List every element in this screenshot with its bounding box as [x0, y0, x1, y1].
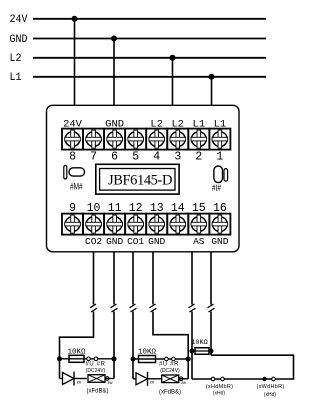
- svg-text:10KΩ: 10KΩ: [191, 339, 207, 347]
- svg-text:(xWdHbR): (xWdHbR): [256, 384, 284, 390]
- svg-text:#U #R: #U #R: [159, 362, 179, 368]
- svg-text:GND: GND: [106, 236, 123, 247]
- svg-text:6: 6: [111, 151, 118, 164]
- svg-text:2: 2: [195, 151, 202, 164]
- svg-text:#I#: #I#: [212, 183, 222, 193]
- svg-text:(xFdB&): (xFdB&): [159, 389, 181, 395]
- svg-text:CO2: CO2: [85, 236, 102, 247]
- svg-text:4: 4: [153, 151, 160, 164]
- svg-text:#U #R: #U #R: [86, 361, 106, 367]
- svg-text:GND: GND: [148, 236, 165, 247]
- svg-text:(xHd): (xHd): [264, 392, 277, 398]
- svg-text:#M#: #M#: [70, 182, 83, 192]
- svg-text:JBF6145-D: JBF6145-D: [108, 172, 172, 188]
- svg-text:L2: L2: [10, 53, 22, 66]
- svg-text:7: 7: [90, 151, 97, 164]
- svg-text:GND: GND: [105, 118, 124, 130]
- svg-text:10KΩ: 10KΩ: [138, 349, 157, 357]
- svg-text:24V: 24V: [63, 118, 83, 130]
- svg-text:zn: zn: [150, 380, 155, 385]
- svg-text:L2: L2: [171, 118, 184, 130]
- svg-text:24V: 24V: [10, 14, 29, 27]
- svg-text:(xFdB&): (xFdB&): [86, 389, 108, 395]
- svg-text:3: 3: [174, 151, 181, 164]
- svg-text:AS: AS: [193, 236, 205, 247]
- svg-text:CO1: CO1: [127, 236, 144, 247]
- svg-text:(xHdMbR): (xHdMbR): [206, 384, 233, 390]
- svg-text:zn: zn: [77, 380, 82, 385]
- svg-text:GND: GND: [211, 236, 228, 247]
- svg-text:L1: L1: [193, 118, 206, 130]
- svg-text:L1: L1: [10, 72, 22, 85]
- svg-text:L1: L1: [214, 118, 227, 130]
- svg-text:GND: GND: [10, 33, 28, 46]
- svg-text:8: 8: [69, 151, 76, 164]
- svg-text:5: 5: [132, 151, 139, 164]
- svg-text:(DC24V): (DC24V): [86, 368, 106, 374]
- svg-text:10KΩ: 10KΩ: [67, 349, 86, 357]
- svg-text:(DC24V): (DC24V): [160, 368, 180, 374]
- svg-text:(xHd): (xHd): [213, 391, 226, 397]
- svg-text:1: 1: [216, 151, 223, 164]
- svg-text:L2: L2: [150, 118, 163, 130]
